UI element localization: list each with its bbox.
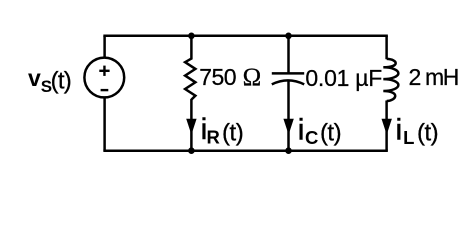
wire capacitor branch top (287, 36, 290, 74)
wire inductor branch bottom (385, 101, 388, 151)
junction dot bottom capacitor (285, 147, 292, 154)
voltage source minus sign (101, 89, 109, 91)
resistor R zigzag (185, 59, 195, 100)
voltage source vs circle (84, 58, 124, 98)
svg-text:0.01 µF: 0.01 µF (305, 65, 382, 91)
junction dot top capacitor (285, 33, 292, 40)
wire resistor branch top (190, 36, 193, 60)
current arrow iR (186, 119, 196, 135)
svg-text:750 Ω: 750 Ω (199, 64, 261, 91)
wire capacitor branch bottom (287, 81, 290, 151)
wire top rail (103, 35, 388, 38)
svg-text:iR(t): iR(t) (201, 113, 244, 148)
svg-text:2 mH: 2 mH (409, 64, 459, 90)
capacitor C bottom curved plate (272, 80, 304, 84)
wire resistor branch bottom (190, 99, 193, 151)
svg-text:iL(t): iL(t) (396, 113, 439, 148)
current arrow iC (283, 119, 293, 135)
wire inductor branch top (385, 36, 388, 59)
svg-text:iC(t): iC(t) (298, 113, 341, 148)
voltage source plus sign (99, 66, 109, 76)
capacitor C top plate (272, 72, 304, 75)
wire left branch top (103, 36, 106, 59)
junction dot bottom resistor (188, 147, 195, 154)
wire left branch bottom (103, 97, 106, 151)
current arrow iL (382, 119, 392, 135)
wire bottom rail (103, 149, 388, 152)
junction dot top resistor (188, 33, 195, 40)
svg-text:vS(t): vS(t) (28, 65, 71, 96)
inductor L coil (383, 59, 398, 101)
